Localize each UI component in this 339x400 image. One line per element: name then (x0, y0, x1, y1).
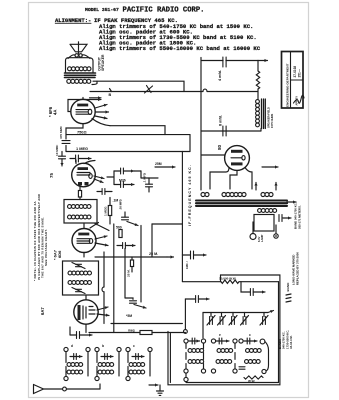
ant group d coil 1 (67, 363, 83, 367)
capacitor coupling 75 (70, 155, 91, 162)
tube 75 cathode bars (78, 182, 89, 185)
label 1 MEG (76, 146, 88, 151)
capacitor .05 MFD (122, 212, 139, 226)
wire 1meg bus (66, 151, 190, 153)
tube 80 filament (231, 156, 245, 160)
tube 6D6 envelope (72, 229, 96, 253)
title block text number (293, 66, 301, 78)
tube 6A7 envelope (74, 300, 98, 324)
pilot lamp 2 (274, 225, 278, 238)
svg-text:*5M: *5M (126, 314, 132, 318)
label .1 MFD (143, 172, 147, 183)
ant group b contacts (95, 347, 121, 351)
capacitor avc bottom (70, 327, 92, 339)
wire choke bottom (201, 129, 261, 132)
svg-text:ENGINEERING-DEPARTMENT: ENGINEERING-DEPARTMENT (286, 63, 290, 107)
label band meters (294, 202, 302, 229)
svg-text:meg: meg (128, 329, 135, 333)
arrow 25M (155, 162, 175, 169)
svg-text:IF-FREQUENCY 465 KC.: IF-FREQUENCY 465 KC. (188, 164, 192, 226)
capacitor .1 MFD (146, 178, 153, 192)
IF transformer T3 box (64, 200, 97, 224)
wire branch 224 (152, 223, 182, 225)
svg-text:25 M.: 25 M. (127, 269, 131, 277)
padder bus (203, 310, 274, 313)
osc coil 1 (188, 349, 204, 353)
tube 80 plate 2 (231, 162, 243, 165)
resistor 75 cathode (78, 186, 81, 200)
svg-text:10 MMF: 10 MMF (55, 145, 59, 156)
IF T3 secondary winding (68, 215, 91, 219)
ant group d contact 2 (64, 376, 68, 380)
capacitor osc padder feed (182, 251, 206, 259)
wire 750 bus (66, 135, 190, 152)
ground symbol (157, 385, 164, 395)
svg-text:470 MMF: 470 MMF (59, 126, 63, 139)
wire drop d (140, 226, 142, 303)
svg-text:W.W.: W.W. (248, 379, 255, 383)
arrow T2 core ground (287, 200, 296, 203)
title block frame (282, 52, 304, 109)
wire drop c (124, 249, 126, 299)
svg-text:c: c (249, 333, 251, 337)
wire 4mfd feed (201, 60, 258, 62)
svg-text:e: e (219, 333, 221, 337)
band trimmer e (216, 333, 229, 344)
label OUTPUT SPEAKER (98, 54, 106, 71)
svg-text:351—: 351— (297, 68, 301, 77)
wire band top bus (168, 275, 280, 385)
label 1MF (185, 261, 189, 269)
wire 80 down right (245, 168, 252, 190)
capacitor osc grid (125, 298, 146, 309)
label 6A7 6D6 (53, 249, 63, 260)
resistor 25M (127, 257, 134, 277)
title block text ENGINEERING (286, 63, 290, 107)
svg-text:LAMP: LAMP (260, 234, 264, 242)
title block signature (294, 95, 305, 105)
capacitor 6D6 cathode (117, 243, 135, 249)
tube 6A7 anode bar (78, 305, 81, 320)
ant group b coil 2 (98, 370, 114, 374)
svg-text:8 mfd.: 8 mfd. (219, 115, 223, 126)
ant group c coil 1 (129, 363, 145, 367)
arrow T2 up 1 (254, 183, 257, 191)
switch contacts on bus (145, 86, 153, 94)
tube 6A7 grids (83, 306, 95, 319)
wire 80 down mid (230, 171, 237, 190)
label 75 (49, 173, 54, 178)
wire bleeder top (257, 61, 259, 72)
svg-text:PACIFIC RADIO CORP.: PACIFIC RADIO CORP. (123, 6, 205, 14)
svg-text:500: 500 (116, 226, 122, 230)
svg-text:4A: 4A (53, 110, 58, 115)
capacitor osc series (239, 367, 245, 369)
band trimmer c (244, 333, 257, 344)
ant group b wires (97, 352, 119, 377)
tube 75 pin arrows (94, 176, 104, 183)
label .05 MFD (119, 199, 123, 210)
resistor meg box (128, 329, 152, 335)
resistor WW bottom (244, 376, 263, 383)
switch contact row 2 (184, 369, 266, 374)
tube 75 grid (77, 173, 92, 179)
tube 6F6 grid (76, 109, 92, 114)
arrow T2 heater (262, 165, 278, 168)
capacitor 10 MMF (59, 152, 66, 167)
svg-text:MODEL 351-67: MODEL 351-67 (85, 7, 119, 13)
oscillator padder 3 (229, 313, 237, 326)
wire drop a (102, 252, 104, 324)
ant group c contacts (126, 347, 152, 351)
switch contact row 1 (184, 339, 265, 344)
capacitor mica b (114, 182, 134, 188)
osc coil 3 (246, 349, 262, 353)
power T2 core (196, 201, 287, 206)
svg-text:1 MEG: 1 MEG (76, 146, 88, 151)
svg-text:REPLACED BY 370-2000: REPLACED BY 370-2000 (295, 252, 299, 285)
svg-text:10,000 W.W.: 10,000 W.W. (219, 277, 237, 281)
osc coil 2 (217, 349, 233, 353)
arrow 4mfd to chassis (258, 59, 268, 62)
wire screen bus (90, 89, 258, 91)
label pilot 1 (257, 234, 264, 242)
svg-text:43-16.4 M.: 43-16.4 M. (289, 335, 293, 349)
wire 75 top (76, 160, 95, 164)
ant group b trimmer (101, 344, 113, 360)
capacitor 4 MFD (223, 57, 226, 67)
ant group d wires (66, 352, 88, 377)
svg-text:750Ω: 750Ω (77, 130, 87, 135)
svg-text:.1 MFD: .1 MFD (143, 172, 147, 183)
svg-text:25M: 25M (155, 162, 162, 166)
IF T4 primary winding (68, 271, 91, 275)
ant group b contact 2 (95, 376, 99, 380)
switch contact extra (184, 377, 188, 381)
power T2 winding a (201, 193, 209, 197)
wire 80 cathode (201, 154, 225, 156)
ant group d contacts (64, 347, 90, 351)
tube 6D6 plate (78, 233, 89, 236)
wire right corner (189, 135, 191, 152)
wire T3 to 6D6 (84, 223, 109, 231)
svg-text:Align trimmers of 5500-18000 K: Align trimmers of 5500-18000 KC band at … (99, 45, 261, 52)
IF T4 secondary winding (68, 281, 91, 285)
power T2 winding c (261, 193, 273, 197)
label 470 MMF (59, 126, 63, 139)
filter choke winding (256, 100, 260, 127)
label 6A7 (40, 307, 45, 315)
label 25 M avc (149, 252, 158, 256)
wire coupling (110, 126, 165, 135)
svg-text:.05 MFD: .05 MFD (119, 199, 123, 210)
label long-wave (292, 252, 300, 285)
tube 6A7 pin arrows (97, 306, 109, 317)
output transformer T1 secondary winding (67, 79, 91, 83)
label .1M (113, 199, 119, 203)
svg-text:6A7: 6A7 (40, 307, 45, 315)
oscillator padder 2 (218, 313, 226, 326)
svg-text:4 mfd.: 4 mfd. (218, 70, 222, 81)
wire plate bus (93, 81, 184, 91)
wire 6F6 left (68, 98, 90, 112)
label bands list (278, 330, 293, 349)
label 4 mfd (218, 70, 222, 81)
capacitor 3M (97, 189, 112, 195)
speaker voice coil (68, 54, 90, 59)
IF transformer T4 box (63, 261, 99, 295)
svg-text:555-171 METERS.: 555-171 METERS. (297, 205, 301, 229)
wire lf bus (89, 332, 185, 334)
wire padder left (202, 313, 204, 338)
wire 6F6 plate out (92, 119, 110, 126)
svg-text:B: B (109, 93, 112, 97)
antenna symbol (34, 385, 63, 394)
resistor 10000 WW (219, 277, 239, 284)
oscillator padder 5 (260, 313, 268, 326)
band trimmer a (189, 338, 200, 344)
output transformer T1 frame (66, 58, 94, 73)
label choke field (267, 107, 274, 128)
label 750 (77, 130, 87, 135)
wire T1 secondary to bus (92, 81, 97, 84)
wire antenna lead (66, 384, 100, 389)
svg-text:M36: M36 (119, 179, 126, 183)
label IF-FREQUENCY 465 KC (188, 164, 192, 226)
svg-text:6D6: 6D6 (57, 250, 62, 258)
wire 6A7 top (85, 295, 87, 300)
wire band inner bus (170, 275, 278, 383)
label 8 mfd (219, 115, 223, 126)
ant group c coil 2 (129, 370, 145, 374)
capacitor electrolytic pair (279, 215, 291, 222)
title block dividers (291, 52, 304, 109)
capacitor 8 MFD (223, 126, 226, 136)
power T2 winding b (222, 193, 246, 197)
arrow output (90, 98, 101, 101)
svg-text:d: d (71, 344, 73, 348)
tube 6D6 grid (77, 239, 93, 244)
svg-text:25 M.: 25 M. (149, 252, 158, 256)
antenna terminal (63, 387, 67, 391)
wire hf bus (111, 323, 182, 325)
wire left drop bus (181, 152, 183, 282)
label band switch (286, 282, 291, 302)
wire 80 down left (210, 168, 229, 190)
capacitor bc 1 (185, 296, 209, 303)
wire 6F6 cathode down (66, 124, 83, 139)
svg-text:APP BY: APP BY (295, 96, 299, 106)
ant group d coil 2 (67, 370, 83, 374)
arrow T2 up 2 (274, 183, 277, 191)
ant group c wires (128, 352, 150, 377)
label 6F6 4A (48, 106, 58, 117)
note text (33, 193, 48, 281)
rectifier filter box (254, 215, 274, 232)
resistor bleeder (256, 71, 259, 89)
tube 6F6 pin arrows (90, 96, 109, 119)
osc coil 6 (245, 360, 261, 364)
osc coil 5 (216, 360, 232, 364)
wire main B+ vertical (200, 58, 202, 191)
svg-text:c: c (133, 344, 135, 348)
wire drop e (151, 224, 153, 257)
IF T4 trimmer top (72, 263, 85, 269)
capacitor mica a (114, 168, 134, 174)
wire inner left drop (184, 299, 188, 333)
wire mica join (107, 171, 114, 185)
speaker cone (70, 42, 87, 54)
filter choke core (262, 99, 266, 129)
wire 6A7 bottom (85, 324, 87, 332)
tube 6F6 envelope (71, 99, 95, 123)
label 5M (126, 314, 132, 318)
tube 6D6 pin arrows (90, 223, 108, 247)
wire drop b (113, 224, 115, 333)
tick mark B (109, 89, 112, 98)
wire group links band (186, 343, 235, 377)
svg-text:1575 OHMS: 1575 OHMS (270, 113, 274, 128)
pilot lamp 1 (250, 222, 256, 240)
wire bleeder bottom (257, 89, 259, 99)
power T2 secondary winding (258, 209, 277, 213)
svg-text:.1M: .1M (113, 199, 119, 203)
label 80 (217, 144, 222, 150)
tube 75 plate (78, 167, 89, 170)
ant group c contact 2 (126, 376, 130, 380)
svg-text:SPEAKER: SPEAKER (101, 54, 105, 71)
label M36 (119, 179, 126, 183)
label 10 MMF (55, 145, 59, 156)
tube 80 envelope (225, 146, 250, 171)
ant group d trimmer (70, 344, 82, 360)
wire osc right link (265, 342, 269, 372)
capacitor 470 MMF (62, 141, 70, 144)
ant group c trimmer (132, 344, 144, 360)
oscillator padder 4 (241, 313, 249, 326)
svg-text:1MF /: 1MF / (185, 261, 189, 269)
wire mica bus (134, 171, 158, 178)
IF T3 primary winding (68, 205, 91, 209)
capacitor bc 2 (241, 282, 265, 296)
wire 6D6 bottom (83, 253, 85, 258)
osc coil 4 (188, 360, 204, 364)
svg-text:1 MEG: 1 MEG (104, 206, 108, 216)
output transformer T1 core (65, 73, 96, 78)
svg-text:SEE VOLTAGE CHART.: SEE VOLTAGE CHART. (44, 229, 48, 266)
label 1 MEG v (104, 206, 108, 216)
tube 75 envelope (72, 163, 96, 187)
svg-text:ALIGNMENT:-: ALIGNMENT:- (55, 17, 91, 24)
oscillator padder 1 (207, 313, 215, 326)
resistor 1 MEG diode load (108, 198, 111, 225)
output transformer T1 primary winding (68, 67, 91, 71)
svg-text:BAND: BAND (286, 282, 290, 292)
resistor 500 (116, 226, 122, 238)
tube 80 plate 1 (231, 150, 243, 153)
ant group b coil 1 (98, 363, 114, 367)
arrow chassis (149, 383, 158, 386)
tube 6F6 plate (77, 104, 88, 107)
IF T4 trimmer bottom (72, 288, 85, 294)
svg-text:75: 75 (49, 173, 54, 178)
svg-text:80: 80 (217, 144, 222, 150)
svg-text:b: b (102, 344, 104, 348)
wire avc (95, 255, 174, 258)
